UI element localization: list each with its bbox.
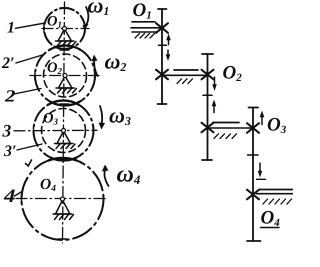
node O3 center dot — [62, 129, 66, 133]
svg-text:O4: O4 — [261, 208, 281, 230]
tick: G4 left edge — [21, 195, 23, 203]
bearing O4 ground lines — [260, 189, 294, 191]
tick on shaft 3 — [248, 154, 259, 156]
node O4 center dot — [61, 197, 65, 201]
label 3' with leader — [3, 143, 42, 160]
svg-text:4: 4 — [3, 186, 16, 207]
shaft 3 — [252, 108, 254, 242]
svg-text:O2: O2 — [47, 60, 62, 76]
svg-text:ω3: ω3 — [109, 103, 131, 129]
svg-text:2: 2 — [4, 87, 16, 106]
shaft 3 bottom cap — [247, 240, 261, 242]
bearing O1 ground lines — [131, 22, 164, 32]
support bearing at O1 (triangle + hatch) — [56, 29, 77, 46]
gear G2 inner pitch circle (pinion 2') — [44, 54, 87, 97]
tick: G1 right edge — [84, 25, 86, 33]
label omega1 with rotation arrow — [83, 0, 110, 31]
shaft 2 bottom cap — [202, 159, 212, 161]
tick: G4 right edge — [103, 195, 105, 203]
shaft 1 — [161, 9, 163, 104]
tick: G1/G2 mesh point — [60, 49, 69, 51]
down arrow on shaft 2 — [214, 77, 216, 85]
bearing O2 ground lines — [162, 74, 208, 76]
tick: G2/G3 mesh point — [60, 103, 69, 105]
support bearing at O4 — [53, 200, 74, 220]
up arrow on shaft 1 — [168, 38, 170, 45]
gear mesh X on shaft 1 at O2 level — [156, 70, 168, 80]
tick: G3 left edge — [33, 127, 35, 135]
label 4 with leader — [3, 186, 22, 207]
support bearing at O3 — [55, 131, 76, 149]
down arrow on shaft 3 — [259, 163, 261, 172]
gear G4 horizontal axis with leader of label 4 — [16, 198, 107, 200]
gear G1 pitch circle — [44, 8, 85, 49]
svg-text:ω4: ω4 — [117, 162, 141, 188]
gear G3 outer pitch circle (wheel 3) — [34, 101, 94, 161]
svg-text:O4: O4 — [40, 176, 56, 194]
tick on shaft 1 — [159, 44, 167, 46]
wire: common vertical axis dash-dot line — [63, 2, 65, 243]
tick: G4 bottom crossing — [58, 238, 67, 240]
bearing O3 hatching — [214, 134, 237, 139]
up arrow on shaft 3 — [261, 116, 263, 125]
gear G2 outer pitch circle (wheel 2) — [35, 46, 95, 106]
tick: G2 right edge — [94, 72, 96, 80]
arrow mark on G4 circle upper-left — [26, 160, 32, 166]
down arrow on shaft 1 — [167, 50, 169, 57]
node O2 center dot — [63, 74, 67, 78]
label omega3 with rotation arrow — [99, 103, 131, 130]
tick: G1 top crossing — [60, 7, 69, 9]
mesh arc G4 top (solid) — [49, 158, 77, 160]
tick on shaft 2 — [203, 94, 212, 96]
label omega2 with rotation arrow — [92, 49, 127, 77]
support bearing at O2 — [56, 76, 77, 93]
tick: G3 right edge — [93, 127, 95, 135]
svg-text:O1: O1 — [133, 0, 152, 22]
svg-text:O3: O3 — [267, 115, 287, 137]
label 2' with leader — [1, 55, 44, 73]
mesh arc G2 top (solid) — [50, 45, 80, 49]
gear G4 pitch circle — [22, 158, 104, 240]
gear G3 inner pitch circle (pinion 3') — [42, 109, 86, 153]
gear mesh X on shaft 3 at O4 level — [247, 190, 259, 200]
mesh arc G2 bottom (solid) — [50, 102, 80, 106]
svg-text:2′: 2′ — [1, 55, 15, 72]
mesh arc G3 bottom (solid) — [51, 158, 76, 161]
bearing O2 hatching — [177, 79, 193, 84]
gear G1 horizontal axis — [42, 28, 89, 30]
bearing O1 hatching — [135, 34, 155, 39]
svg-text:O2: O2 — [223, 63, 243, 85]
shaft 2 — [207, 54, 209, 160]
svg-text:3′: 3′ — [3, 143, 17, 160]
mesh arc G3 top (solid) — [49, 100, 79, 104]
node O1 center dot — [63, 27, 67, 31]
bearing O4 hatching — [263, 199, 292, 204]
svg-text:ω2: ω2 — [105, 49, 127, 75]
svg-text:ω1: ω1 — [88, 0, 110, 18]
mesh arc G1 bottom (solid) — [58, 48, 72, 49]
svg-text:3: 3 — [2, 121, 12, 141]
tick below down arrow on shaft 3 — [257, 178, 266, 180]
label 2 with leader — [4, 87, 41, 106]
svg-text:1: 1 — [7, 20, 15, 37]
bearing O3 ground lines — [208, 127, 254, 129]
shaft 1 top cap — [158, 8, 167, 10]
svg-text:O3: O3 — [43, 111, 58, 127]
gear mesh X on shaft 3 at O3 level — [247, 123, 259, 133]
label 1 with leader — [7, 20, 45, 37]
gear mesh X on shaft 2 at O3 level — [202, 123, 214, 133]
tick: G2 left edge — [34, 72, 36, 80]
gear mesh X on shaft 1 at O1 level — [156, 23, 168, 33]
up arrow on shaft 2 — [213, 105, 215, 113]
tick: G1 left edge — [43, 25, 45, 33]
label omega4 with rotation arrow — [102, 162, 141, 188]
gear G3 horizontal axis with leader of label 3 — [14, 129, 97, 132]
shaft 2 top cap — [202, 53, 213, 55]
gear mesh X on shaft 2 at O2 level — [202, 70, 214, 80]
svg-text:O1: O1 — [47, 14, 62, 30]
tick: G3/G4 mesh point — [58, 158, 67, 160]
gear G2 horizontal axis — [30, 75, 99, 77]
shaft 1 bottom cap — [158, 103, 167, 105]
shaft 3 top cap — [249, 107, 259, 109]
